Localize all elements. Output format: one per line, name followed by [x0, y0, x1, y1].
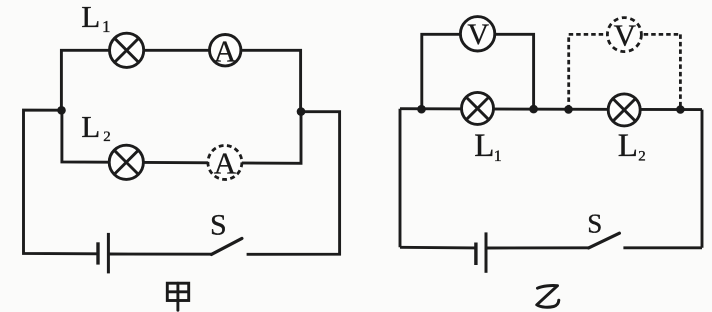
lamp L1b circle — [462, 92, 494, 124]
svg-text:A: A — [214, 146, 237, 181]
label L1 (left circuit) — [81, 0, 110, 36]
svg-text:V: V — [467, 18, 489, 51]
lamp L1b cross — [466, 97, 489, 120]
battery B1 short plate (negative) — [96, 242, 99, 264]
lamp L1 circle — [110, 33, 144, 67]
wire: top branch with left and right verticals down to junction row — [61, 50, 300, 111]
label L1 (right circuit) — [474, 128, 502, 165]
svg-text:S: S — [210, 209, 227, 242]
label L2 (right circuit) — [618, 128, 646, 164]
caption 乙 — [537, 286, 559, 308]
wire: bottom between battery and switch — [486, 246, 589, 249]
svg-text:L: L — [81, 0, 100, 34]
wire: middle branch (L2 / dashed ammeter) — [62, 110, 301, 163]
node F junction dot — [676, 105, 685, 114]
lamp L2 circle — [109, 145, 143, 179]
wire: main horizontal rail — [400, 107, 702, 111]
svg-text:L: L — [474, 128, 494, 164]
node A junction dot — [57, 106, 66, 115]
wire: left outer vertical — [399, 109, 402, 248]
battery B1 long plate (positive) — [107, 233, 110, 274]
ammeter A1 circle — [210, 35, 241, 66]
ammeter A2 dashed circle — [208, 145, 242, 179]
wire: left stub from node A to outer left vertical and bottom wire to battery — [24, 110, 99, 254]
caption 甲 — [167, 283, 188, 310]
node D junction dot — [529, 105, 538, 114]
wire: voltmeter V1 branch (solid) — [422, 34, 534, 109]
wire: dashed voltmeter branch top horizontal — [569, 33, 681, 36]
lamp L2b circle — [608, 94, 640, 126]
lamp L2b cross — [613, 99, 636, 122]
svg-text:1: 1 — [102, 17, 111, 36]
svg-text:L: L — [81, 109, 100, 144]
wire: bottom right from switch contact up right side to node B stub — [247, 112, 340, 255]
wire: dashed voltmeter branch right vertical — [679, 34, 682, 109]
battery B2 long plate (positive) — [485, 232, 488, 272]
svg-text:V: V — [614, 17, 637, 52]
node E junction dot — [564, 105, 573, 114]
battery B2 short plate (negative) — [474, 243, 477, 266]
voltmeter V2 dashed circle — [607, 18, 641, 52]
wire: dashed voltmeter branch left vertical — [567, 34, 570, 109]
voltmeter V1 circle — [460, 17, 494, 51]
lamp L1 cross — [115, 38, 139, 62]
node B junction dot — [297, 107, 306, 116]
node C junction dot — [417, 105, 426, 114]
svg-text:A: A — [214, 33, 237, 68]
switch S1 blade — [211, 238, 242, 254]
wire: right outer vertical — [701, 110, 704, 248]
svg-text:2: 2 — [638, 148, 646, 164]
svg-text:1: 1 — [494, 148, 502, 165]
svg-text:S: S — [587, 209, 602, 239]
svg-text:L: L — [618, 128, 638, 164]
label L2 (left circuit) — [81, 109, 111, 145]
wire: bottom left to battery — [400, 246, 476, 249]
lamp L2 cross — [114, 150, 138, 174]
wire: bottom between battery and switch — [108, 253, 211, 256]
svg-text:2: 2 — [103, 129, 111, 145]
switch S2 blade — [589, 233, 620, 248]
wire: bottom right from switch contact — [623, 246, 702, 249]
